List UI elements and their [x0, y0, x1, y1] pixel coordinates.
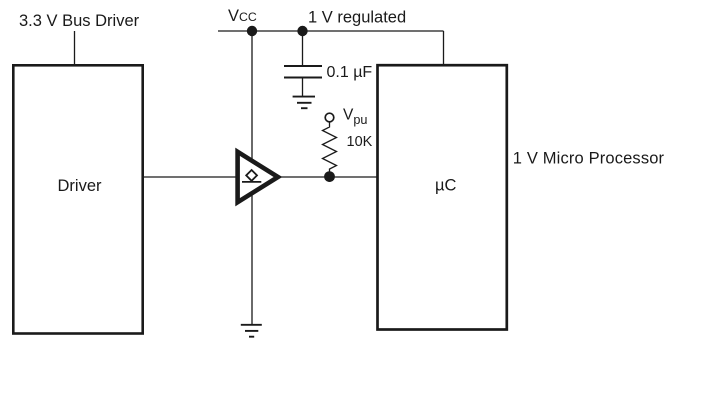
ground (capacitor) — [293, 97, 315, 109]
buffer U2 open-drain — [238, 152, 278, 202]
open-drain output symbol — [242, 170, 261, 182]
junction: regulated rail node — [297, 26, 307, 36]
microprocessor box U3 — [378, 65, 507, 329]
svg-text:3.3 V Bus Driver: 3.3 V Bus Driver — [19, 12, 140, 30]
junction: pull-up node — [324, 171, 335, 182]
driver box U1 — [13, 65, 142, 333]
svg-text:10K: 10K — [347, 134, 373, 150]
wire: capacitor feed — [302, 31, 304, 66]
svg-text:VCC: VCC — [228, 7, 257, 25]
terminal: Vpu — [325, 113, 334, 122]
wire: Vcc vertical through buffer to ground — [251, 31, 253, 325]
svg-text:1 V regulated: 1 V regulated — [308, 8, 406, 26]
wire: driver label lead — [74, 31, 76, 65]
resistor R1 — [323, 122, 337, 177]
junction: Vcc node — [247, 26, 257, 36]
wire: buffer output to microprocessor — [280, 176, 378, 178]
svg-text:Vpu: Vpu — [343, 107, 367, 128]
ground (buffer) — [241, 325, 262, 337]
capacitor C1 — [284, 66, 322, 96]
svg-text:Driver: Driver — [58, 177, 103, 195]
wire: driver output to buffer input — [142, 176, 237, 178]
wire: rail drop to microprocessor — [443, 31, 445, 66]
svg-text:0.1 µF: 0.1 µF — [327, 64, 373, 81]
wire: Vcc rail horizontal — [218, 30, 444, 32]
svg-text:1 V Micro Processor: 1 V Micro Processor — [513, 149, 665, 167]
svg-text:µC: µC — [435, 177, 457, 195]
